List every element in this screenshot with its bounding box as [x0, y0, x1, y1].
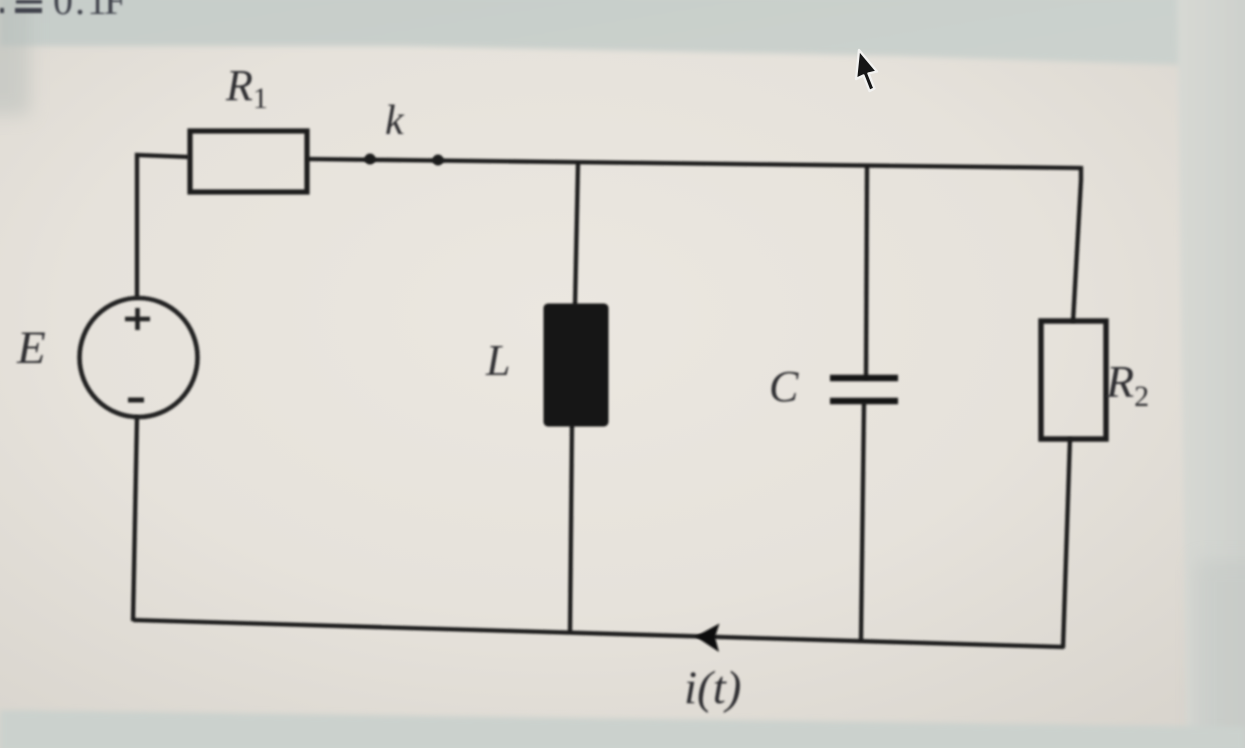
- wire: L branch top: [575, 163, 578, 306]
- vignette top-left corner: [0, 0, 30, 115]
- vignette bottom-right corner: [1195, 560, 1245, 748]
- switch k (closed, contact dots): [365, 154, 376, 165]
- svg-text:L: L: [485, 336, 510, 385]
- wire: C branch top: [866, 167, 867, 379]
- wire: source bottom to bottom-left corner: [133, 416, 137, 621]
- wire: bottom bus: [133, 620, 1064, 647]
- wire: C branch bottom: [861, 402, 864, 640]
- resistor R2: [1041, 321, 1106, 439]
- svg-text:C: C: [769, 362, 799, 411]
- inductor L: [544, 304, 608, 426]
- capacitor C: [830, 378, 898, 401]
- svg-text:k: k: [385, 98, 405, 144]
- svg-text:0.1: 0.1: [53, 0, 109, 23]
- screen bottom strip: [0, 710, 1245, 748]
- cut-off value label "= 0.1 F": [0, 0, 126, 23]
- resistor R1: [190, 131, 307, 192]
- polarity +: [125, 308, 150, 330]
- wire: L branch bottom: [570, 424, 572, 633]
- wire: R1 right through switch to top-right corner: [307, 159, 1081, 168]
- mouse cursor: [856, 50, 877, 91]
- wire: right branch bottom: [1063, 438, 1070, 648]
- svg-text:i(t): i(t): [684, 662, 741, 714]
- current arrow i(t): [696, 624, 720, 653]
- wire: right branch top: [1073, 166, 1081, 322]
- wire: source top to R1: [137, 155, 189, 298]
- screen top strip: [0, 0, 1245, 67]
- polarity -: [128, 398, 144, 403]
- svg-text:F: F: [104, 0, 126, 23]
- screen right band: [1177, 0, 1245, 748]
- voltage source E: [80, 298, 198, 417]
- svg-text:E: E: [16, 322, 46, 374]
